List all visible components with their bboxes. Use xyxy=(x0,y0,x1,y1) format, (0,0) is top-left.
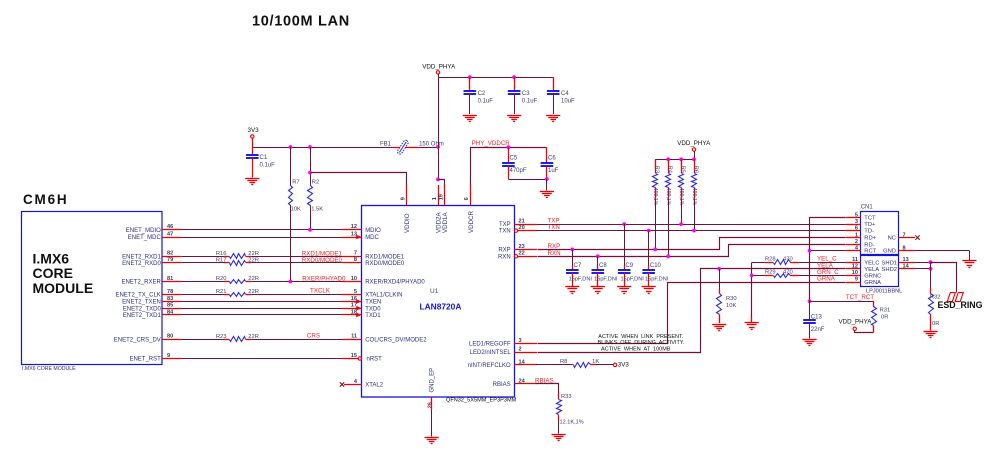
svg-text:R8: R8 xyxy=(560,359,567,365)
CM6H pin 78 ENET2_TX_CLK xyxy=(115,289,181,299)
svg-text:NC: NC xyxy=(888,236,896,242)
junction (R2 to MDIO row) xyxy=(308,228,312,232)
CM6H pin 82 ENET2_RXD1 xyxy=(122,251,182,261)
junction (R6) xyxy=(692,229,696,233)
U1 pin 4 XTAL2 (no connect) xyxy=(340,379,384,389)
junction xyxy=(679,157,683,161)
svg-text:SHD2: SHD2 xyxy=(882,267,897,273)
junction (FB1/VDD_PHYA) xyxy=(436,145,440,149)
CM6H pin 83 ENET2_TXEN xyxy=(122,296,182,306)
resistor R33 12.1K,1% xyxy=(557,394,584,434)
wire GRNA to LED1 xyxy=(538,283,846,344)
svg-text:GND: GND xyxy=(883,249,896,255)
CN1 pin 5 TCT xyxy=(846,212,876,221)
CM6H pin 47 ENET_MDC xyxy=(128,231,182,241)
svg-text:RD-: RD- xyxy=(864,242,874,248)
svg-text:10K: 10K xyxy=(726,303,736,309)
wire xyxy=(182,301,342,303)
svg-text:15pF,DNI: 15pF,DNI xyxy=(621,277,645,283)
U1 pin 24 RBIAS xyxy=(493,378,537,388)
ground (C5/C6) xyxy=(540,192,554,198)
svg-text:TXCLK: TXCLK xyxy=(310,288,331,295)
resistor R17 22R xyxy=(216,258,259,266)
svg-text:TXEN: TXEN xyxy=(365,300,381,306)
U1 pin 15 nRST xyxy=(342,353,382,363)
svg-text:22nF: 22nF xyxy=(811,327,825,333)
svg-text:TXD0: TXD0 xyxy=(365,306,381,312)
junction (C10) xyxy=(647,229,651,233)
svg-text:6: 6 xyxy=(464,197,470,200)
svg-text:RBIAS: RBIAS xyxy=(493,382,511,388)
U1 pin 21 TXP xyxy=(499,219,537,229)
svg-text:FB1: FB1 xyxy=(380,141,392,147)
junction (C7) xyxy=(570,248,574,252)
svg-text:C13: C13 xyxy=(811,315,823,321)
junction xyxy=(666,157,670,161)
svg-text:MODULE: MODULE xyxy=(33,280,94,296)
svg-text:19: 19 xyxy=(439,194,445,200)
svg-text:10uF: 10uF xyxy=(561,99,575,105)
wire CN1 GND xyxy=(915,251,970,261)
net label TXN xyxy=(548,224,560,231)
net label GRN_C xyxy=(817,269,839,276)
svg-text:I.MX6 CORE MODULE: I.MX6 CORE MODULE xyxy=(22,366,76,372)
svg-text:11: 11 xyxy=(351,334,357,340)
wire TXN row xyxy=(537,230,846,232)
net label TCT_RCT xyxy=(846,294,874,301)
CN1 pin 12 YELA xyxy=(846,264,879,273)
svg-text:I.MX6: I.MX6 xyxy=(33,251,70,267)
CN1 pin 7 NC xyxy=(888,232,915,241)
ground (R28/R29) xyxy=(745,323,759,330)
svg-text:C4: C4 xyxy=(561,91,569,97)
svg-text:13: 13 xyxy=(351,231,357,237)
resistor R2 1.5K xyxy=(308,147,324,230)
CN1 pin 10 GRNC xyxy=(846,270,882,279)
svg-text:9: 9 xyxy=(855,277,858,283)
resistor R30 10K xyxy=(717,269,737,323)
capacitor C4 10uF xyxy=(547,77,575,114)
svg-text:0.1uF: 0.1uF xyxy=(478,99,494,105)
svg-text:R3: R3 xyxy=(654,166,660,173)
svg-text:R33: R33 xyxy=(561,394,572,400)
resistor R23 22R xyxy=(216,334,259,342)
U1 pin 23 RXP xyxy=(498,244,537,254)
svg-text:TD+: TD+ xyxy=(864,222,876,228)
svg-text:CM6H: CM6H xyxy=(23,192,68,207)
net label RXD1/MODE1 xyxy=(302,251,343,258)
svg-text:0R: 0R xyxy=(932,321,939,327)
svg-text:GRNA: GRNA xyxy=(817,276,836,283)
svg-text:ENET2_CRS_DV: ENET2_CRS_DV xyxy=(114,337,161,343)
svg-text:RXN: RXN xyxy=(498,254,511,260)
junction xyxy=(545,177,549,181)
svg-text:MDC: MDC xyxy=(365,235,379,241)
svg-text:MDIO: MDIO xyxy=(365,228,381,234)
resistor R5 499,1% xyxy=(678,159,685,224)
svg-text:80: 80 xyxy=(167,334,173,340)
U1 pin 17 TXD0 xyxy=(342,303,381,313)
U1 pin 9 VDDIO xyxy=(401,185,412,233)
U1 pin 7 RXD1/MODE1 xyxy=(342,251,405,261)
net label YELA xyxy=(817,263,834,270)
wire PHY_VDDCR rail xyxy=(471,148,547,186)
junction xyxy=(512,75,516,79)
CN1 pin 9 GRNA xyxy=(846,277,881,286)
resistor R32 0R xyxy=(929,262,941,331)
svg-text:RXD0/MODE0: RXD0/MODE0 xyxy=(302,257,343,264)
wire R21 row left xyxy=(182,294,224,296)
ground (R32) xyxy=(924,332,938,338)
ground (C3) xyxy=(507,116,521,122)
wire VDD_PHYA resistor rail xyxy=(655,159,694,161)
net label TXCLK xyxy=(310,288,331,295)
net label YEL_C xyxy=(817,256,837,263)
svg-text:0.1uF: 0.1uF xyxy=(260,163,276,169)
junction (R4) xyxy=(666,254,670,258)
wire TCT_RCT row xyxy=(810,301,874,303)
svg-text:26: 26 xyxy=(427,402,433,408)
wire xyxy=(182,314,342,316)
junction (R29 row) xyxy=(750,274,754,278)
ground (C9) xyxy=(617,287,631,294)
CN1 pin 4 RCT xyxy=(846,245,877,254)
wire R8 to 3V3 xyxy=(596,364,613,366)
no-connect X (CN1 pin 7) xyxy=(915,235,919,239)
junction (R5) xyxy=(679,222,683,226)
junction (SHD2) xyxy=(929,267,933,271)
wire SHD1 xyxy=(915,262,931,264)
svg-text:GND_EP: GND_EP xyxy=(430,368,436,393)
net label RBIAS xyxy=(535,377,554,384)
power 3V3 (top left) xyxy=(248,127,260,147)
svg-text:0R: 0R xyxy=(881,315,888,321)
resistor R8 1K xyxy=(560,359,599,367)
resistor R31 0R xyxy=(872,301,891,332)
U1 pin 26 GND_EP xyxy=(427,368,435,437)
wire R21 row right xyxy=(251,294,342,296)
svg-text:R29: R29 xyxy=(765,270,776,276)
U1 pin 6 VDDCR xyxy=(464,185,475,233)
svg-text:U1: U1 xyxy=(430,288,439,295)
wire YELA to LED2 xyxy=(538,269,846,353)
net label RXN xyxy=(548,250,561,257)
resistor R7 10K xyxy=(289,147,302,282)
junction (R2 top to VDDIO wire) xyxy=(308,171,312,175)
svg-text:C5: C5 xyxy=(510,156,518,162)
svg-text:R28: R28 xyxy=(765,257,776,263)
resistor R21 22R xyxy=(216,289,259,296)
svg-text:10K: 10K xyxy=(291,206,301,212)
net label RXD0/MODE0 xyxy=(302,257,343,264)
capacitor C10 15pF,DNI xyxy=(642,231,668,287)
svg-text:COL/CRS_DV/MODE2: COL/CRS_DV/MODE2 xyxy=(365,337,427,343)
svg-text:R4: R4 xyxy=(667,166,673,173)
svg-text:VDD1A: VDD1A xyxy=(442,211,449,233)
svg-text:RXP: RXP xyxy=(498,248,510,254)
wire LED cathode ground xyxy=(751,263,753,318)
wire RXP row xyxy=(538,238,846,250)
wire VDD1A branch xyxy=(439,180,445,186)
junction (RCT) xyxy=(808,249,812,253)
wire 3V3 rail xyxy=(252,147,393,149)
svg-text:47: 47 xyxy=(167,231,173,237)
svg-text:RXD1/MODE1: RXD1/MODE1 xyxy=(365,254,405,260)
junction (R7 to RXER row) xyxy=(289,280,293,284)
power VDD_PHYA (bottom right) xyxy=(839,319,874,333)
wire R16 row right xyxy=(251,256,342,258)
svg-text:ENET2_TXD0: ENET2_TXD0 xyxy=(123,306,162,312)
wire xyxy=(182,229,342,231)
svg-text:LED2/nINTSEL: LED2/nINTSEL xyxy=(470,350,512,356)
wire C5-C6 bottom xyxy=(508,179,547,181)
svg-text:BLINKS OFF DURING ACTIVITY.: BLINKS OFF DURING ACTIVITY. xyxy=(598,340,685,346)
svg-text:VDDCR: VDDCR xyxy=(468,210,475,233)
svg-text:470: 470 xyxy=(783,257,793,263)
ground (C1) xyxy=(245,179,259,185)
wire R16 row left xyxy=(182,256,224,258)
svg-text:PHY_VDDCR: PHY_VDDCR xyxy=(472,140,511,147)
CN1 pin 14 SHD2 xyxy=(882,264,915,273)
junction (TCT_RCT) xyxy=(808,299,812,303)
power VDD_PHYA (top) xyxy=(422,63,456,179)
svg-text:LAN8720A: LAN8720A xyxy=(420,302,462,312)
svg-text:TD-: TD- xyxy=(864,229,874,235)
svg-text:RCT: RCT xyxy=(864,249,876,255)
wire xyxy=(182,237,342,239)
svg-text:R16: R16 xyxy=(216,251,227,257)
wire to ESD ring xyxy=(931,263,957,293)
wire TXP row xyxy=(537,224,846,226)
CM6H pin 85 ENET2_TXD0 xyxy=(123,303,182,313)
svg-text:C2: C2 xyxy=(478,91,486,97)
wire to ground xyxy=(751,317,753,322)
U1 pin 2 LED2/nINTSEL xyxy=(470,346,537,356)
CN1 pin 6 TD- xyxy=(846,225,874,234)
wire RXN row xyxy=(538,245,846,257)
svg-text:RD+: RD+ xyxy=(864,236,876,242)
svg-text:C1: C1 xyxy=(260,155,268,161)
wire RCT row xyxy=(810,250,846,252)
svg-text:15pF,DNI: 15pF,DNI xyxy=(645,277,669,283)
svg-text:RXER/PHYAD0: RXER/PHYAD0 xyxy=(302,275,346,282)
wire R17 row left xyxy=(182,262,224,264)
svg-text:YEL_C: YEL_C xyxy=(817,256,837,263)
CM6H pin 80 ENET2_CRS_DV xyxy=(114,334,182,344)
svg-text:TXP: TXP xyxy=(499,222,511,228)
ground (C13) xyxy=(802,340,816,346)
svg-text:ENET_MDC: ENET_MDC xyxy=(128,235,162,241)
svg-text:R21: R21 xyxy=(216,289,227,295)
U1 pin 19 VDD1A xyxy=(439,185,450,233)
connector CN1 LPJ0011BBNL xyxy=(861,205,903,295)
svg-text:7: 7 xyxy=(354,251,357,257)
svg-text:C6: C6 xyxy=(548,156,556,162)
svg-text:GRNC: GRNC xyxy=(864,274,881,280)
svg-text:R20: R20 xyxy=(216,276,227,282)
svg-text:3V3: 3V3 xyxy=(618,362,630,369)
wire VDDIO supply xyxy=(311,173,407,186)
svg-text:10/100M LAN: 10/100M LAN xyxy=(252,14,350,30)
net label GRNA xyxy=(817,276,836,283)
ground (C7) xyxy=(565,287,579,294)
U1 pin 8 RXD0/MODE0 xyxy=(342,257,405,267)
junction xyxy=(507,145,511,149)
power 3V3 (R8) xyxy=(613,362,629,369)
svg-text:SHD1: SHD1 xyxy=(882,260,897,266)
wire R17 row right xyxy=(251,262,342,264)
svg-text:ENET_RST: ENET_RST xyxy=(129,357,161,363)
svg-text:XTAL1/CLKIN: XTAL1/CLKIN xyxy=(365,293,402,299)
svg-text:TXN: TXN xyxy=(499,229,511,235)
svg-text:17: 17 xyxy=(351,303,357,309)
wire R23 row right xyxy=(251,339,342,341)
U1 pin 12 MDIO xyxy=(342,224,381,234)
svg-text:R6: R6 xyxy=(692,166,698,173)
resistor R16 22R xyxy=(216,251,259,259)
svg-text:C3: C3 xyxy=(522,91,530,97)
net label TXP xyxy=(548,218,560,225)
junction (R30) xyxy=(717,267,721,271)
IC U1 LAN8720A xyxy=(362,206,517,404)
svg-text:12.1K,1%: 12.1K,1% xyxy=(560,419,584,425)
svg-text:470pF: 470pF xyxy=(510,168,527,174)
CM6H pin 9 ENET_RST xyxy=(129,353,181,363)
net label RXER/PHYAD0 xyxy=(302,275,346,282)
svg-text:R17: R17 xyxy=(216,258,227,264)
svg-text:ENET2_RXD1: ENET2_RXD1 xyxy=(122,254,161,260)
svg-text:VDD_PHYA: VDD_PHYA xyxy=(422,63,456,70)
svg-text:RXER/RXD4/PHYAD0: RXER/RXD4/PHYAD0 xyxy=(365,280,425,286)
net label RXP xyxy=(548,243,561,250)
wire xyxy=(182,358,342,360)
junction (C9) xyxy=(622,222,626,226)
capacitor C3 0.1uF xyxy=(508,77,538,114)
svg-text:C7: C7 xyxy=(574,263,582,269)
junction xyxy=(289,145,293,149)
U1 pin 18 TXD1 xyxy=(342,309,381,319)
resistor R3 499,1% xyxy=(652,159,659,249)
capacitor C13 22nF xyxy=(803,301,825,338)
svg-text:ENET2_RXD0: ENET2_RXD0 xyxy=(122,261,161,267)
svg-text:1: 1 xyxy=(432,197,438,200)
junction (C8) xyxy=(596,254,600,258)
svg-text:ENET2_TXD1: ENET2_TXD1 xyxy=(123,313,162,319)
capacitor C7 15pF,DNI xyxy=(566,249,592,286)
svg-text:RXD0/MODE0: RXD0/MODE0 xyxy=(365,261,405,267)
U1 pin 1 VDD2A xyxy=(432,185,443,233)
net label PHY_VDDCR xyxy=(472,140,511,147)
CN1 pin 1 RD+ xyxy=(846,232,877,241)
ground (C8) xyxy=(591,287,605,294)
capacitor C5 470pF xyxy=(502,147,527,179)
net label CRS xyxy=(307,332,320,339)
ground (R30) xyxy=(712,325,726,331)
svg-text:QFN32_5X5MM_EP3P3MM: QFN32_5X5MM_EP3P3MM xyxy=(446,398,517,404)
junction xyxy=(308,145,312,149)
ground (C10) xyxy=(642,287,656,294)
wire VDD_PHYA cap rail xyxy=(438,77,553,79)
CN1 pin 13 SHD1 xyxy=(882,257,915,266)
svg-text:0.1uF: 0.1uF xyxy=(522,99,538,105)
U1 pin 16 TXEN xyxy=(342,296,381,306)
power VDD_PHYA (right) xyxy=(677,140,711,159)
wire to ground xyxy=(546,179,548,191)
junction (SHD1) xyxy=(929,260,933,264)
ground (C4) xyxy=(546,116,560,122)
svg-text:R23: R23 xyxy=(216,334,227,340)
svg-text:LED1/REGOFF: LED1/REGOFF xyxy=(469,342,511,348)
svg-text:ENET2_RXER: ENET2_RXER xyxy=(121,280,161,286)
svg-text:YELA: YELA xyxy=(864,267,879,273)
svg-text:R30: R30 xyxy=(726,296,737,302)
ground (C2) xyxy=(463,116,477,122)
note text (LED behaviour) xyxy=(598,334,685,353)
svg-text:GRNA: GRNA xyxy=(864,280,881,286)
resistor R4 499,1% xyxy=(665,159,672,256)
svg-text:9: 9 xyxy=(401,197,407,200)
junction xyxy=(468,75,472,79)
U1 pin 10 RXER/RXD4/PHYAD0 xyxy=(342,276,425,286)
svg-text:ENET2_TX_CLK: ENET2_TX_CLK xyxy=(115,293,160,299)
resistor R20 22R xyxy=(216,276,259,283)
svg-text:150 Ohm: 150 Ohm xyxy=(419,141,444,147)
svg-text:YELC: YELC xyxy=(864,260,879,266)
svg-text:C9: C9 xyxy=(625,263,633,269)
resistor R28 470 xyxy=(752,257,846,265)
U1 pin 5 XTAL1/CLKIN xyxy=(342,289,402,299)
svg-text:ENET_MDIO: ENET_MDIO xyxy=(126,228,161,234)
svg-text:ACTIVE WHEN AT 100MB: ACTIVE WHEN AT 100MB xyxy=(601,347,671,353)
svg-text:VDDIO: VDDIO xyxy=(404,213,411,233)
title 10/100M LAN xyxy=(252,14,350,30)
capacitor C1 0.1uF xyxy=(246,147,275,178)
ground (R33) xyxy=(552,435,566,441)
svg-text:XTAL2: XTAL2 xyxy=(365,383,384,389)
svg-text:VDD_PHYA: VDD_PHYA xyxy=(677,140,711,147)
CN1 pin 11 YELC xyxy=(846,257,880,266)
CM6H pin 84 ENET2_TXD1 xyxy=(123,309,182,319)
U1 pin 22 RXN xyxy=(498,251,537,261)
svg-text:RXN: RXN xyxy=(548,250,561,257)
junction xyxy=(692,157,696,161)
ferrite bead FB1 150 Ohm xyxy=(380,140,444,155)
CM6H pin 81 ENET2_RXER xyxy=(121,276,181,286)
svg-text:TXD1: TXD1 xyxy=(365,313,381,319)
CM6H pin 46 ENET_MDIO xyxy=(126,224,182,234)
svg-text:TCT: TCT xyxy=(864,216,876,222)
svg-text:21: 21 xyxy=(519,219,525,225)
svg-text:C10: C10 xyxy=(650,263,662,269)
U1 pin 11 COL/CRS_DV/MODE2 xyxy=(342,334,427,344)
svg-text:C8: C8 xyxy=(599,263,607,269)
svg-text:R7: R7 xyxy=(292,180,299,186)
capacitor C8 15pF,DNI xyxy=(592,256,618,286)
CN1 pin 2 RD- xyxy=(846,239,875,248)
capacitor C9 15pF,DNI xyxy=(618,224,644,286)
svg-text:2: 2 xyxy=(519,346,522,352)
CM6H pin 79 ENET2_RXD0 xyxy=(122,257,182,267)
U1 pin 3 LED1/REGOFF xyxy=(469,338,537,348)
CN1 pin 3 TD+ xyxy=(846,219,876,228)
U1 pin 13 MDC xyxy=(342,231,380,241)
capacitor C6 1uF xyxy=(541,147,559,179)
svg-text:R31: R31 xyxy=(880,308,891,314)
junction (VDD2A branch) xyxy=(436,178,440,182)
svg-text:CRS: CRS xyxy=(307,332,320,339)
capacitor C2 0.1uF xyxy=(464,77,494,114)
ground (CN1 GND) xyxy=(962,261,976,268)
